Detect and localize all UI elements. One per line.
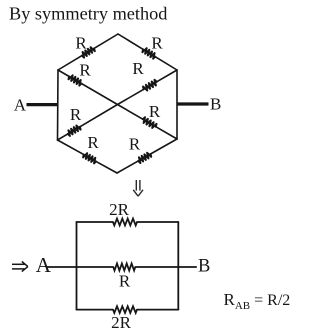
- svg-text:R: R: [79, 61, 91, 80]
- svg-text:B: B: [198, 256, 210, 276]
- resistor R diagonal lower-right half (LR to center): [156, 127, 177, 139]
- resistor R top-left edge (UL to top vertex): [58, 56, 82, 70]
- svg-text:2R: 2R: [109, 200, 130, 219]
- svg-text:2R: 2R: [111, 313, 132, 332]
- svg-text:R: R: [87, 133, 99, 152]
- svg-text:R: R: [149, 102, 161, 121]
- svg-text:R: R: [75, 34, 87, 53]
- svg-text:R: R: [119, 272, 131, 291]
- svg-text:R: R: [70, 105, 82, 124]
- node A terminal wire: [27, 103, 59, 106]
- resistor R top-right edge (top vertex to UR): [118, 34, 143, 49]
- svg-text:R: R: [151, 34, 163, 53]
- svg-text:By symmetry method: By symmetry method: [9, 4, 167, 24]
- wire right side of parallel loop: [177, 222, 179, 310]
- svg-text:RAB = R/2: RAB = R/2: [224, 290, 291, 312]
- resistor R middle branch: [47, 266, 113, 268]
- wire left vertical edge: [57, 70, 60, 140]
- wire left side of parallel loop: [76, 222, 78, 310]
- svg-text:A: A: [14, 95, 27, 114]
- resistor R diagonal lower-left half (LL to center): [58, 134, 68, 140]
- resistor R bottom-left edge (LL to bottom vertex): [58, 140, 84, 155]
- svg-text:A: A: [36, 253, 52, 277]
- implies double right-arrow: [12, 262, 28, 272]
- node B terminal wire: [177, 102, 209, 105]
- svg-text:R: R: [129, 135, 141, 154]
- resistor R diagonal upper-left half (UL to center): [58, 70, 69, 77]
- resistor R diagonal upper-right half (UR to center): [157, 70, 177, 82]
- double down-arrow (equivalence): [133, 180, 143, 196]
- resistor 2R top branch: [77, 221, 114, 223]
- resistor R bottom-right edge (bottom vertex to LR): [117, 161, 138, 173]
- svg-text:B: B: [210, 94, 221, 113]
- wire right vertical edge: [176, 70, 178, 139]
- resistor 2R bottom branch: [77, 309, 114, 311]
- svg-text:R: R: [132, 59, 144, 78]
